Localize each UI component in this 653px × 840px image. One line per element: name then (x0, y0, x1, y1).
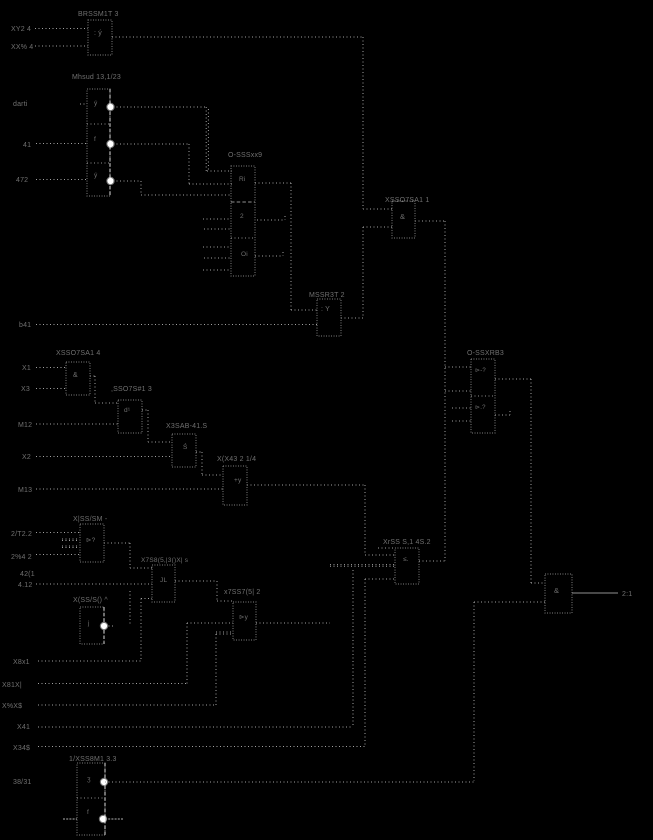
svg-text:4.12: 4.12 (18, 582, 32, 589)
svg-text:+y: +y (234, 477, 242, 484)
svg-text:X(SS/S() ^: X(SS/S() ^ (73, 597, 108, 604)
svg-text:O-SSSxx9: O-SSSxx9 (228, 152, 262, 159)
svg-text:M12: M12 (18, 422, 32, 429)
svg-text:X3: X3 (21, 386, 30, 393)
svg-text:⊳.?: ⊳.? (475, 405, 486, 411)
svg-text:X2: X2 (22, 454, 31, 461)
svg-text:Mhsud 13,1/23: Mhsud 13,1/23 (72, 74, 121, 81)
svg-text:38/31: 38/31 (13, 779, 32, 786)
svg-text:JL: JL (160, 577, 167, 584)
svg-text:M13: M13 (18, 487, 32, 494)
svg-text:XX% 4: XX% 4 (11, 44, 33, 51)
svg-text:Ri: Ri (239, 176, 246, 183)
svg-text:darti: darti (13, 101, 28, 108)
svg-text:X(X43 2 1/4: X(X43 2 1/4 (217, 456, 256, 463)
svg-text:2:1: 2:1 (622, 591, 632, 598)
svg-text:ý: ý (94, 100, 98, 107)
svg-text:1/XSS8M1 3.3: 1/XSS8M1 3.3 (69, 756, 117, 763)
svg-text:2: 2 (240, 213, 244, 220)
svg-text:&: & (400, 212, 405, 221)
svg-text:&: & (73, 372, 78, 379)
svg-text:XY2 4: XY2 4 (11, 26, 31, 33)
svg-text:X7S8(5,|3()X| s: X7S8(5,|3()X| s (141, 557, 189, 564)
svg-text:⊳y: ⊳y (239, 614, 249, 621)
svg-text:XSSO7SA1 4: XSSO7SA1 4 (56, 350, 100, 357)
svg-text:XrSS S,1 4S.2: XrSS S,1 4S.2 (383, 539, 431, 546)
svg-text:f: f (94, 136, 96, 143)
svg-text:f: f (87, 809, 89, 816)
svg-text:: Y: : Y (321, 306, 330, 313)
svg-text:⊳?: ⊳? (86, 537, 96, 544)
svg-text:2%4 2: 2%4 2 (11, 554, 32, 561)
svg-text:X3SAB-41.S: X3SAB-41.S (166, 423, 207, 430)
svg-text:X8x1: X8x1 (13, 659, 30, 666)
svg-text:42(1: 42(1 (20, 571, 35, 578)
svg-text:j: j (87, 620, 90, 627)
svg-text:X34$: X34$ (13, 745, 30, 752)
svg-text:X81X|: X81X| (2, 682, 22, 689)
svg-text:≤.: ≤. (403, 556, 409, 563)
svg-text:MSSR3T 2: MSSR3T 2 (309, 292, 345, 299)
svg-text:x7SS7(5| 2: x7SS7(5| 2 (224, 589, 261, 596)
svg-text:,SSO7S#1 3: ,SSO7S#1 3 (111, 386, 152, 393)
svg-text:472: 472 (16, 177, 28, 184)
svg-text:X41: X41 (17, 724, 30, 731)
svg-text:⊳-?: ⊳-? (475, 368, 486, 374)
svg-text:: ý: : ý (94, 30, 102, 37)
svg-text:Oi: Oi (241, 251, 248, 258)
svg-text:d¹: d¹ (124, 407, 131, 414)
svg-text:X1: X1 (22, 365, 31, 372)
svg-text:X|SS/SM -: X|SS/SM - (73, 516, 108, 523)
svg-text:ʒ: ʒ (87, 776, 91, 783)
svg-text:41: 41 (23, 142, 31, 149)
svg-text:X%X$: X%X$ (2, 703, 22, 710)
svg-text:2/T2.2: 2/T2.2 (11, 531, 32, 538)
svg-text:ý: ý (94, 172, 98, 179)
svg-text:O-SSXRB3: O-SSXRB3 (467, 350, 504, 357)
svg-text:Ś: Ś (183, 442, 188, 451)
svg-text:b41: b41 (19, 322, 31, 329)
svg-text:BRSSM1T 3: BRSSM1T 3 (78, 11, 119, 18)
svg-text:&: & (554, 586, 559, 595)
